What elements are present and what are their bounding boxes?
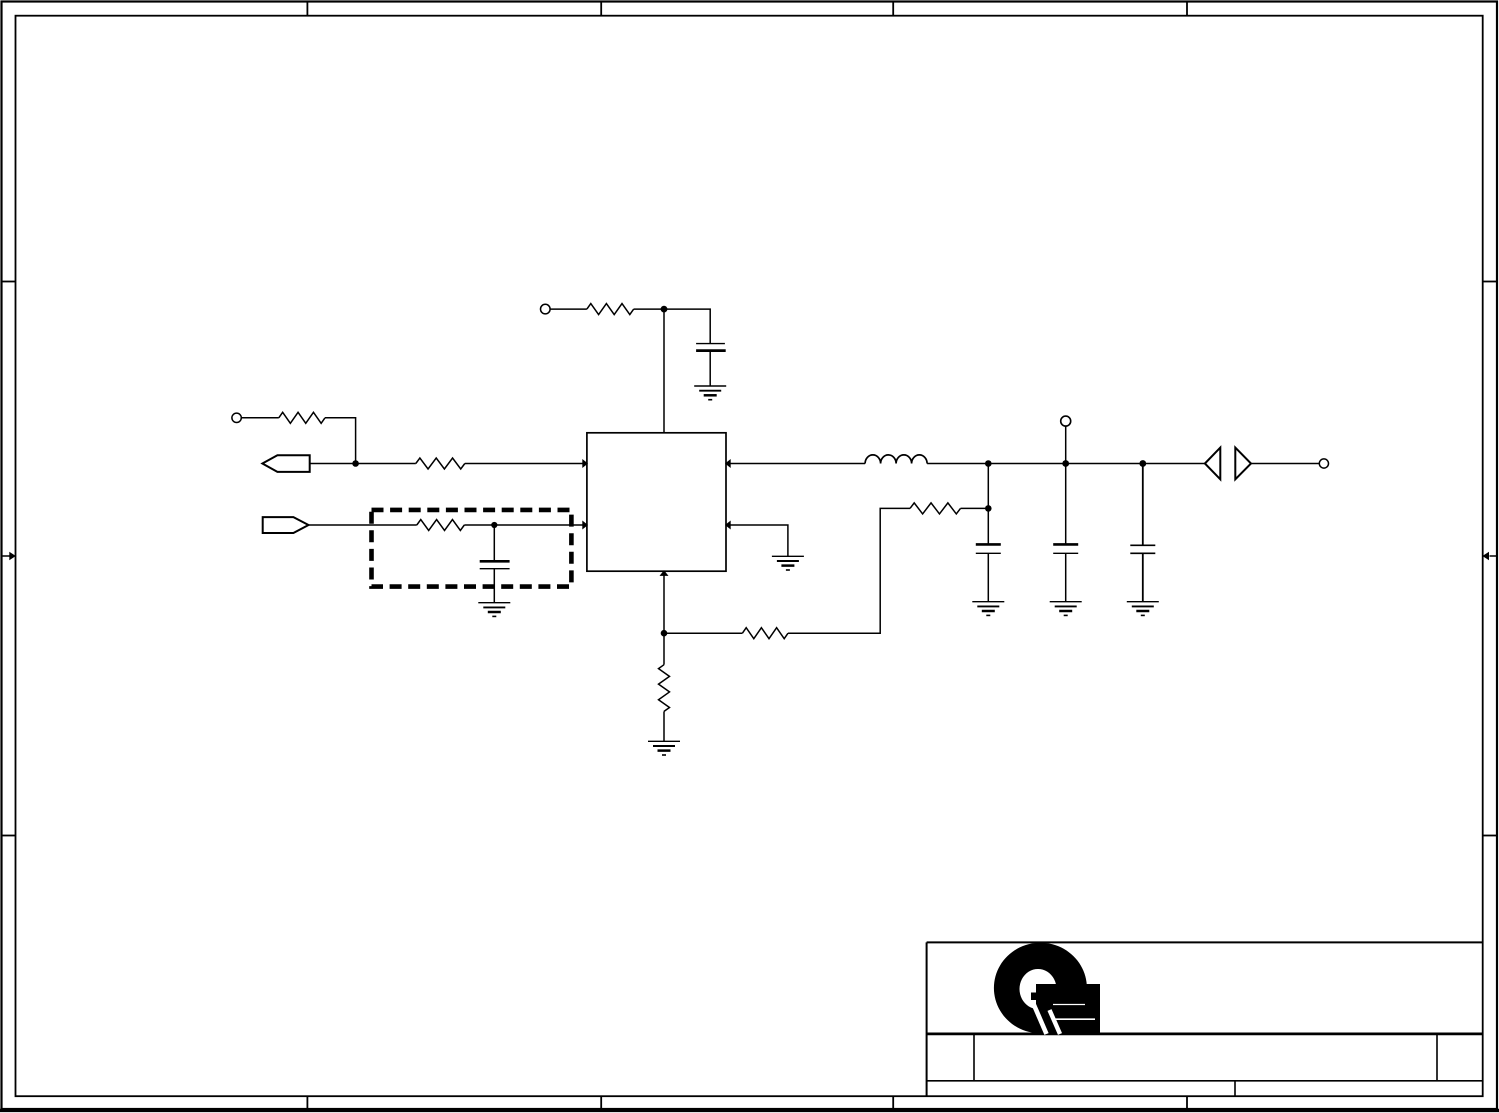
terminal T2: [541, 304, 551, 314]
wire: [663, 309, 665, 433]
title block: [927, 942, 1483, 1096]
node G: [1139, 460, 1146, 467]
wire: [1143, 463, 1205, 465]
ground: [772, 556, 804, 570]
wire: [664, 632, 742, 634]
diode D2: [1235, 448, 1251, 480]
wire: [1065, 553, 1067, 601]
pin arrow into U1 left 2: [582, 521, 588, 530]
wire: [310, 463, 356, 465]
resistor R6: [742, 628, 788, 639]
wire: [493, 569, 495, 603]
capacitor C5: [1130, 545, 1155, 553]
resistor R2: [416, 458, 465, 469]
node H: [661, 630, 668, 637]
resistor R3: [417, 520, 465, 531]
wire: [987, 464, 989, 509]
ground: [648, 741, 680, 755]
diode D1: [1205, 448, 1220, 480]
node F: [1062, 460, 1069, 467]
wire: [1065, 426, 1067, 463]
wire: [465, 463, 585, 465]
logo: [994, 943, 1100, 1034]
capacitor C3: [976, 544, 1001, 553]
wire: [663, 633, 665, 665]
ground: [694, 386, 726, 400]
pin arrow into U1 bottom: [660, 570, 669, 576]
wire: [1142, 553, 1144, 601]
terminal T3: [1061, 416, 1071, 426]
wire: [1065, 464, 1067, 545]
wire: [987, 508, 989, 544]
wire: [493, 525, 495, 561]
resistor R5: [910, 503, 960, 514]
node C: [661, 306, 668, 313]
inductor L1: [865, 455, 927, 464]
wire: [241, 417, 278, 419]
wire: [709, 351, 711, 386]
wire: [464, 524, 585, 526]
pin arrow into U1 left 1: [582, 459, 588, 468]
ground: [478, 603, 510, 617]
pin arrow into U1 right 1: [725, 459, 731, 468]
wire (feedback from C3 node to R6): [961, 507, 989, 509]
pin arrow into U1 right 2: [725, 521, 731, 530]
wire: [550, 308, 587, 310]
wire: [309, 524, 417, 526]
wire: [356, 463, 416, 465]
wire: [1251, 463, 1319, 465]
wire: [927, 463, 1066, 465]
wire: [663, 711, 665, 741]
wire: [664, 309, 710, 344]
terminal T4: [1319, 459, 1328, 468]
dashed box (optional network): [372, 510, 572, 587]
wire: [788, 508, 910, 633]
port P2: [263, 517, 309, 533]
wire: [1066, 463, 1143, 465]
wire: [1142, 464, 1144, 546]
capacitor C1: [480, 561, 510, 568]
terminal T1: [232, 413, 241, 422]
wire: [987, 553, 989, 601]
wire: [730, 463, 865, 465]
port P1: [262, 455, 309, 472]
node E: [985, 505, 992, 512]
ground: [1050, 602, 1082, 616]
wire: [730, 525, 788, 556]
resistor R7: [659, 665, 670, 712]
node D: [985, 460, 992, 467]
node B: [491, 522, 497, 528]
capacitor C2: [696, 344, 726, 351]
ground: [1127, 602, 1159, 616]
IC U1: [587, 433, 726, 571]
capacitor C4: [1053, 544, 1078, 553]
wire: [663, 571, 665, 633]
wire: [325, 418, 356, 464]
resistor R4: [587, 304, 634, 315]
ground: [972, 602, 1004, 616]
node A: [352, 460, 359, 467]
resistor R1: [279, 412, 325, 423]
wire: [634, 308, 664, 310]
